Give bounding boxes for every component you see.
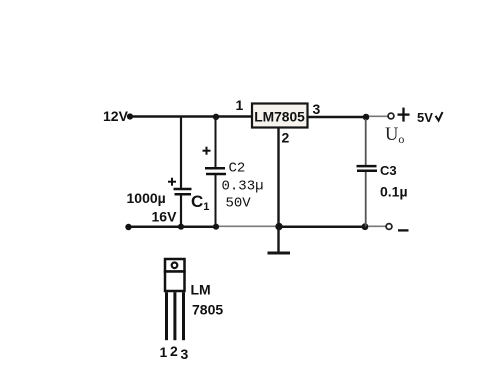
wire output node to + terminal	[369, 115, 388, 117]
wire C3 branch bottom	[365, 172, 367, 227]
+ output terminal	[388, 113, 394, 119]
+ mark C1	[168, 178, 176, 186]
label Uo	[385, 125, 404, 146]
wire C2 branch bottom	[215, 175, 217, 227]
label 50V	[226, 196, 252, 212]
node C1 bottom junction	[178, 224, 184, 230]
svg-text:Uo: Uo	[385, 125, 404, 146]
svg-text:3: 3	[181, 346, 189, 362]
label 0.33µ	[222, 179, 264, 195]
svg-text:1: 1	[160, 344, 168, 360]
node ground junction	[275, 223, 282, 230]
svg-text:1000µ: 1000µ	[127, 190, 166, 206]
wire U1 pin2 to ground	[277, 128, 279, 252]
node C3 bottom junction	[362, 223, 369, 230]
label 16V	[152, 209, 178, 225]
wire C1 branch bottom	[180, 195, 182, 227]
pin number 2	[170, 343, 178, 359]
- polarity mark	[398, 229, 409, 231]
TO-220 leg 1	[165, 292, 168, 340]
capacitor C3 plates	[357, 166, 378, 171]
wire bottom node to - terminal	[368, 225, 386, 227]
label 5V	[417, 110, 433, 125]
svg-text:3: 3	[313, 101, 321, 117]
svg-text:7805: 7805	[192, 302, 223, 318]
node input + terminal	[127, 113, 133, 119]
svg-text:C1: C1	[191, 192, 209, 213]
label C2	[229, 161, 246, 177]
svg-text:LM: LM	[191, 282, 211, 298]
svg-text:0.1µ: 0.1µ	[380, 184, 408, 200]
wire bottom rail left	[129, 225, 217, 228]
label LM	[191, 282, 211, 298]
node output junction	[363, 114, 370, 121]
node input - terminal	[125, 224, 131, 230]
TO-220 package tab	[165, 259, 185, 272]
svg-text:1: 1	[236, 97, 244, 113]
pin number 3	[181, 346, 189, 362]
pin 1 label	[236, 97, 244, 113]
label 0.1µ	[380, 184, 408, 200]
svg-text:0.33µ: 0.33µ	[222, 179, 264, 195]
wire bottom rail middle	[216, 225, 279, 227]
svg-text:16V: 16V	[152, 209, 178, 225]
- output terminal	[386, 224, 392, 230]
TO-220 mounting hole	[172, 263, 178, 269]
label C3	[380, 163, 397, 178]
svg-text:LM7805: LM7805	[254, 110, 305, 125]
TO-220 body	[165, 272, 185, 292]
node C2 bottom junction	[213, 224, 219, 230]
wire bottom rail right	[279, 225, 366, 228]
capacitor C1 plates	[174, 189, 192, 194]
+ polarity mark	[398, 108, 410, 122]
svg-text:50V: 50V	[226, 196, 252, 212]
svg-text:2: 2	[170, 343, 178, 359]
check mark	[436, 112, 443, 121]
TO-220 leg 2	[173, 292, 176, 340]
svg-text:5V: 5V	[417, 110, 433, 125]
IC U1 LM7805	[252, 104, 308, 128]
wire C3 branch top	[365, 119, 367, 166]
node C2 top junction	[213, 114, 219, 120]
svg-text:C3: C3	[380, 163, 397, 178]
ground symbol	[268, 252, 291, 255]
label C1	[191, 192, 209, 213]
+ mark C2	[203, 147, 211, 155]
TO-220 leg 3	[182, 292, 185, 340]
wire C1 branch top	[180, 117, 182, 189]
label 7805	[192, 302, 223, 318]
label 1000µ	[127, 190, 166, 206]
label 12V	[103, 108, 129, 124]
svg-text:12V: 12V	[103, 108, 129, 124]
capacitor C2 plates	[205, 168, 226, 174]
wire U1 pin3 to output node	[308, 116, 367, 119]
svg-text:2: 2	[282, 130, 290, 146]
wire C2 branch top	[215, 117, 217, 168]
pin 3 label	[313, 101, 321, 117]
pin 2 label	[282, 130, 290, 146]
pin number 1	[160, 344, 168, 360]
svg-text:C2: C2	[229, 161, 246, 177]
wire top rail 12V to U1 pin1	[131, 115, 252, 118]
